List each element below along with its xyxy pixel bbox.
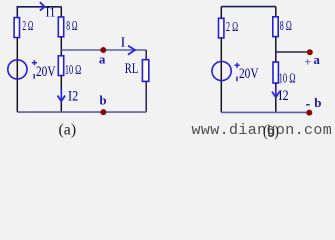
polarity plus (b)	[235, 63, 240, 68]
wire 8-ohm top stub (b)	[275, 7, 277, 17]
source US 20V (b)	[212, 61, 231, 80]
svg-text:b: b	[99, 93, 106, 108]
wire left branch vertical through source (a)	[16, 38, 18, 113]
svg-text:I2: I2	[68, 88, 78, 104]
svg-text:10 Ω: 10 Ω	[279, 71, 296, 86]
svg-text:b: b	[314, 95, 321, 110]
current arrow I2 (a)	[60, 89, 62, 100]
wire left branch vertical through source (b)	[220, 38, 222, 113]
wire 2-ohm top stub (b)	[220, 7, 222, 19]
wire 8-ohm bottom to 10-ohm top (b)	[275, 37, 277, 62]
resistor R6 10-ohm (b)	[273, 62, 278, 83]
resistor R1 2-ohm (a)	[14, 18, 19, 38]
svg-text:20V: 20V	[36, 64, 56, 80]
polarity minus (b)	[236, 77, 238, 82]
current arrow I1	[40, 2, 45, 10]
current arrow I	[128, 46, 135, 55]
svg-text:(a): (a)	[59, 122, 77, 139]
svg-text:20V: 20V	[239, 66, 259, 82]
wire middle horizontal to RL (a)	[61, 49, 146, 51]
source US 20V (a)	[8, 60, 27, 79]
resistor RL (a)	[142, 60, 148, 82]
wire top horizontal (a)	[17, 7, 61, 18]
svg-text:a: a	[99, 51, 106, 66]
svg-text:8 Ω: 8 Ω	[280, 18, 292, 33]
node terminal b (b)	[306, 110, 312, 116]
svg-text:2 Ω: 2 Ω	[22, 18, 33, 33]
svg-text:I2: I2	[278, 88, 288, 104]
wire bottom horizontal (a)	[17, 111, 146, 113]
wire RL top stub (a)	[145, 50, 147, 60]
svg-text:8 Ω: 8 Ω	[66, 18, 77, 33]
resistor R5 8-ohm (b)	[273, 17, 278, 37]
svg-text:10 Ω: 10 Ω	[65, 62, 81, 77]
node terminal a (b)	[307, 49, 313, 55]
resistor R2 8-ohm (a)	[58, 17, 63, 37]
wire 8-ohm top stub (a)	[60, 7, 62, 17]
wire 8-ohm bottom to 10-ohm top (a)	[60, 37, 62, 56]
svg-text:I1: I1	[46, 5, 56, 20]
wire RL bottom to bottom wire (a)	[145, 81, 147, 112]
wire to terminal a (b)	[276, 51, 307, 53]
polarity minus (a)	[33, 74, 35, 79]
svg-text:a: a	[313, 52, 320, 67]
svg-text:www.diangon.com: www.diangon.com	[192, 122, 333, 139]
wire 10-ohm bottom to bottom wire (b)	[275, 83, 277, 112]
svg-text:2 Ω: 2 Ω	[226, 19, 238, 34]
polarity plus (a)	[32, 60, 37, 65]
svg-text:(b): (b)	[263, 123, 279, 140]
label minus of terminal b	[306, 104, 310, 106]
node b	[100, 109, 106, 115]
wire 10-ohm bottom to bottom wire (a)	[60, 76, 62, 113]
svg-text:RL: RL	[125, 61, 139, 77]
node a	[100, 47, 106, 53]
current arrow I2 (b)	[275, 87, 277, 97]
svg-text:I: I	[121, 35, 126, 50]
svg-text:+: +	[304, 55, 311, 69]
resistor R3 10-ohm (a)	[58, 56, 63, 76]
resistor R4 2-ohm (b)	[219, 18, 224, 38]
wire bottom horizontal (b)	[221, 111, 306, 113]
wire top horizontal (b)	[221, 6, 275, 8]
